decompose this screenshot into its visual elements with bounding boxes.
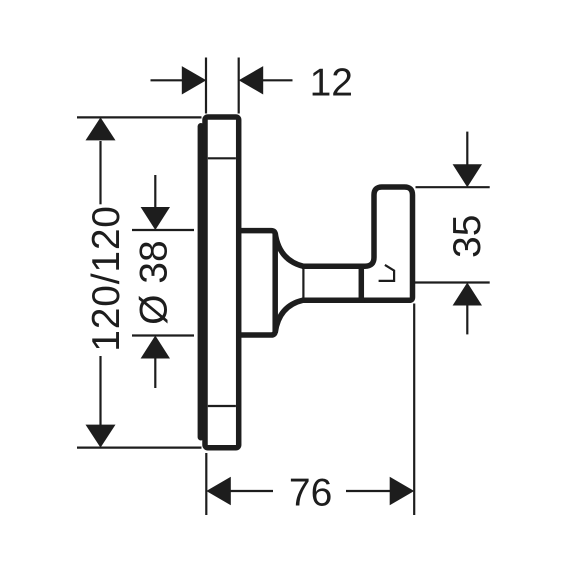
cone bottom curve	[275, 300, 303, 332]
dim 38: top leader line	[154, 175, 156, 209]
dim 35: bottom arrow	[453, 283, 482, 306]
plate tick line bottom	[208, 405, 236, 407]
dim 38: top extension line	[132, 229, 194, 231]
dim 12: left extension line	[205, 58, 207, 114]
dim 12: left segment	[151, 79, 183, 81]
dim 38: bottom leader line	[154, 358, 156, 388]
dim 35: top leader line	[466, 132, 468, 165]
dim 35: bottom extension line	[414, 281, 490, 283]
svg-text:12: 12	[310, 62, 353, 105]
plate tick line top	[208, 157, 236, 159]
dim 35: bottom leader line	[466, 305, 468, 334]
svg-text:76: 76	[289, 472, 332, 515]
dim 76: left extension line	[205, 453, 207, 515]
dim 35: top arrow	[453, 164, 482, 187]
dim 76: right extension line	[413, 304, 415, 516]
cone top curve	[275, 233, 303, 266]
dim 120/120: lower dim line	[99, 356, 101, 425]
dim 120/120: top arrow	[86, 117, 116, 140]
dim 38: top arrow	[141, 207, 170, 230]
dim 120/120: bottom arrow	[86, 425, 116, 448]
dim 38: bottom extension line	[132, 334, 194, 336]
dim 76: left segment	[230, 490, 273, 492]
lever detail mark	[379, 265, 395, 281]
lever handle outline	[302, 187, 413, 300]
svg-text:120/120: 120/120	[85, 205, 128, 352]
dim 12: right arrow	[239, 66, 264, 94]
dim 35: top extension line	[416, 186, 490, 188]
dim 38: bottom arrow	[141, 336, 170, 359]
dim 120/120: upper dim line	[99, 141, 101, 204]
escutcheon plate outline	[205, 117, 239, 448]
svg-text:35: 35	[446, 215, 489, 258]
seal bar behind plate	[198, 123, 205, 441]
dim 120/120: bottom extension line	[77, 447, 202, 449]
dim 12: left arrow	[182, 66, 207, 94]
cone/stem junction line	[302, 267, 304, 300]
dim 120/120: top extension line	[77, 116, 202, 118]
handle base	[239, 231, 276, 335]
svg-text:Ø 38: Ø 38	[133, 240, 176, 325]
dim 76: right arrow	[390, 477, 415, 505]
dim 12: right segment	[263, 79, 293, 81]
stem/lever hub junction line	[359, 264, 365, 303]
dim 12: right extension line	[238, 58, 240, 114]
dim 76: right segment	[346, 490, 391, 492]
dim 76: left arrow	[206, 477, 231, 505]
